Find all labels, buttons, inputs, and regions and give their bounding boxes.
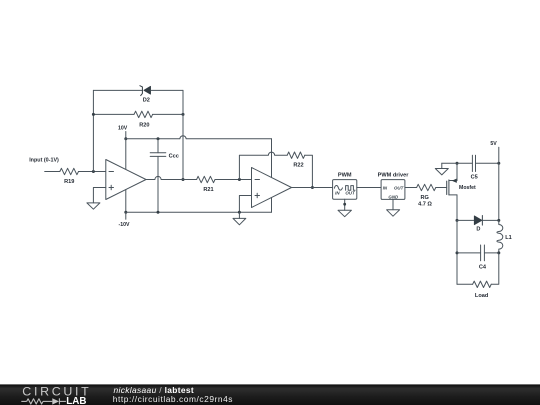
op-amp U1 <box>106 160 146 200</box>
wire source down to C4 row <box>456 220 458 284</box>
ground (PWM) <box>338 210 351 216</box>
wire R21 to op-amp U2 minus <box>215 179 252 181</box>
svg-text:http://circuitlab.com/c29rn4s: http://circuitlab.com/c29rn4s <box>113 394 233 404</box>
capacitor Ccc <box>150 139 179 212</box>
node 5V label <box>490 141 497 147</box>
svg-text:Mosfet: Mosfet <box>459 185 476 191</box>
block PWM <box>333 172 357 199</box>
svg-text:Input (0-1V): Input (0-1V) <box>29 158 59 164</box>
wire 10V rail corner down / op-amp U2 top power pin <box>271 139 273 178</box>
node junction Ccc top <box>157 137 160 140</box>
svg-text:R21: R21 <box>203 187 213 193</box>
ground (op-amp U2 plus) <box>233 212 246 225</box>
resistor R19 <box>60 168 79 185</box>
svg-text:RG: RG <box>421 195 429 201</box>
node junction U2 minus/feedback <box>238 178 241 181</box>
wire op-amp U1 plus input to ground <box>93 188 105 203</box>
node Input label <box>29 158 59 164</box>
node junction feedback/output <box>182 178 185 181</box>
svg-text:PWM driver: PWM driver <box>378 172 410 178</box>
resistor R21 <box>197 176 215 193</box>
svg-text:C4: C4 <box>479 265 487 271</box>
node junction 10V rail <box>124 137 127 140</box>
svg-text:IN: IN <box>335 191 340 196</box>
node junction -10V rail <box>124 211 127 214</box>
node junction C5/5V rail <box>497 162 500 165</box>
wire right rail L1 bottom to load row <box>491 253 499 284</box>
node junction diode/L1 top <box>497 219 500 222</box>
svg-text:LAB: LAB <box>66 396 86 405</box>
wire R20 row left lead <box>93 113 134 115</box>
capacitor C5 <box>471 155 478 180</box>
svg-text:L1: L1 <box>505 235 512 241</box>
wire PWM gnd pin <box>344 199 346 210</box>
svg-text:R19: R19 <box>64 179 74 185</box>
wire 10V rail with hop over x=183 <box>126 136 272 139</box>
diode D2 (zener) <box>140 86 151 104</box>
node junction C4 left <box>456 251 459 254</box>
block PWM driver <box>378 172 410 199</box>
resistor R20 <box>134 111 153 128</box>
node junction drain row <box>456 162 459 165</box>
svg-text:-10V: -10V <box>119 222 130 228</box>
wire feedback right vertical <box>182 90 184 179</box>
wire diode row left <box>457 219 474 221</box>
svg-text:R22: R22 <box>293 163 303 169</box>
svg-text:5V: 5V <box>490 141 497 147</box>
wire PWM to PWM driver <box>357 187 381 189</box>
svg-text:D: D <box>476 227 480 233</box>
wire feedback top right segment <box>151 89 183 91</box>
wire feedback left vertical <box>92 90 94 171</box>
ground (drain flag) <box>435 163 448 175</box>
wire load row left <box>457 283 473 285</box>
node -10V label <box>119 212 130 228</box>
node junction R20 left <box>92 113 95 116</box>
wire R22 right end down to output <box>305 155 313 187</box>
transistor Mosfet (NMOS) <box>447 163 476 220</box>
wire diode row right <box>482 219 498 221</box>
svg-text:Load: Load <box>475 293 489 299</box>
diode D <box>474 216 482 233</box>
wire op-amp U1 bottom power pin <box>125 190 127 213</box>
inductor L1 <box>497 220 512 253</box>
svg-text:D2: D2 <box>143 97 150 103</box>
svg-text:OUT: OUT <box>345 191 355 196</box>
node junction R22/output <box>311 186 314 189</box>
wire 5V rail <box>498 147 500 220</box>
wire PWM driver out to RG <box>405 187 417 189</box>
node junction R20 right <box>182 113 185 116</box>
wire drain row <box>442 162 473 164</box>
node 10V label <box>118 125 128 139</box>
ground (PWM driver) <box>387 210 400 216</box>
wire bottom rail <box>126 211 272 213</box>
op-amp U2 <box>252 168 292 208</box>
resistor R22 <box>287 152 305 169</box>
wire op-amp U2 output to PWM <box>292 187 333 189</box>
ground (op-amp U1 plus) <box>87 203 100 209</box>
node junction C4 right / L1 bottom <box>497 251 500 254</box>
node junction input/feedback <box>92 170 95 173</box>
wire feedback top left segment <box>93 89 142 91</box>
svg-text:C5: C5 <box>471 175 478 181</box>
svg-text:OUT: OUT <box>394 185 404 190</box>
resistor RG 4.7 Ohm <box>417 184 436 207</box>
wire PWM driver gnd pin <box>392 199 394 209</box>
wire op-amp U1 top power pin <box>125 139 127 170</box>
wire R20 row right lead <box>153 113 183 115</box>
wire input to R19 <box>45 171 60 173</box>
svg-text:4.7 Ω: 4.7 Ω <box>418 202 432 208</box>
wire op-amp U2 bottom power pin <box>271 198 273 213</box>
svg-text:IN: IN <box>383 185 388 190</box>
svg-text:GND: GND <box>388 194 399 199</box>
wire RG to gate <box>436 187 447 189</box>
svg-text:10V: 10V <box>118 125 128 131</box>
wire op-amp U1 output with hop over Ccc vertical <box>146 176 197 179</box>
svg-text:PWM: PWM <box>338 172 352 178</box>
svg-text:R20: R20 <box>139 122 149 128</box>
resistor Load <box>473 281 492 299</box>
node junction source/diode row <box>456 219 459 222</box>
svg-text:Ccc: Ccc <box>169 154 179 160</box>
node junction Ccc bottom <box>157 211 160 214</box>
wire op-amp U2 plus input to bottom rail <box>239 196 251 213</box>
capacitor C4 <box>457 245 499 271</box>
logo resistor-diode glyph <box>21 398 66 404</box>
wire U2 feedback up and right with hop over x=271.5 <box>239 152 287 179</box>
node junction PWM gnd <box>343 203 346 206</box>
node junction bottom rail / ground <box>238 211 241 214</box>
wire R19 to op-amp minus <box>79 171 106 173</box>
wire C5 to 5V rail <box>476 162 499 164</box>
